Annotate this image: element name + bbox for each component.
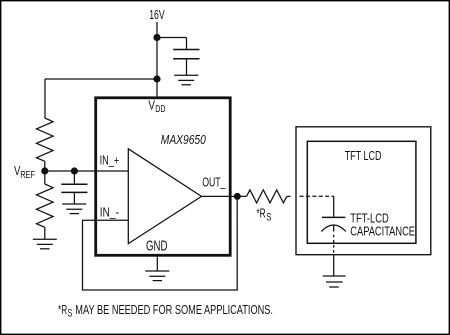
svg-text:V: V [148, 97, 155, 112]
svg-text:IN_+: IN_+ [100, 152, 120, 167]
svg-text:*R: *R [58, 303, 67, 317]
svg-text:OUT_: OUT_ [202, 174, 226, 189]
svg-text:16V: 16V [149, 7, 165, 22]
svg-text:MAY BE NEEDED FOR SOME APPLICA: MAY BE NEEDED FOR SOME APPLICATIONS. [75, 303, 273, 317]
svg-text:TFT LCD: TFT LCD [345, 148, 382, 163]
svg-text:*R: *R [256, 205, 265, 220]
svg-text:DD: DD [155, 103, 165, 115]
svg-text:S: S [68, 307, 73, 319]
svg-text:REF: REF [20, 169, 35, 181]
svg-text:MAX9650: MAX9650 [161, 132, 207, 147]
svg-text:IN_-: IN_- [100, 204, 119, 219]
svg-text:GND: GND [146, 238, 167, 254]
svg-text:CAPACITANCE: CAPACITANCE [350, 223, 415, 238]
svg-text:S: S [266, 212, 271, 224]
